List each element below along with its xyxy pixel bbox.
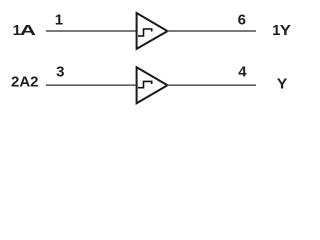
wire bbox=[168, 84, 257, 86]
node 1A bbox=[13, 22, 37, 39]
node 1Y bbox=[272, 22, 291, 39]
wire bbox=[46, 30, 137, 32]
svg-text:3: 3 bbox=[56, 64, 64, 81]
svg-text:2A2: 2A2 bbox=[11, 74, 39, 91]
svg-text:Y: Y bbox=[277, 76, 288, 92]
svg-text:4: 4 bbox=[238, 64, 247, 81]
svg-text:A: A bbox=[20, 22, 36, 38]
wire bbox=[168, 30, 257, 32]
svg-text:Y: Y bbox=[280, 23, 292, 39]
schmitt hysteresis symbol U2 bbox=[138, 81, 152, 87]
svg-text:1: 1 bbox=[55, 11, 63, 28]
svg-text:6: 6 bbox=[238, 11, 246, 28]
buffer U1 (Schmitt-trigger) bbox=[137, 13, 168, 49]
schmitt hysteresis symbol U1 bbox=[138, 29, 152, 36]
wire bbox=[46, 84, 137, 86]
buffer U2 (Schmitt-trigger) bbox=[137, 67, 168, 103]
